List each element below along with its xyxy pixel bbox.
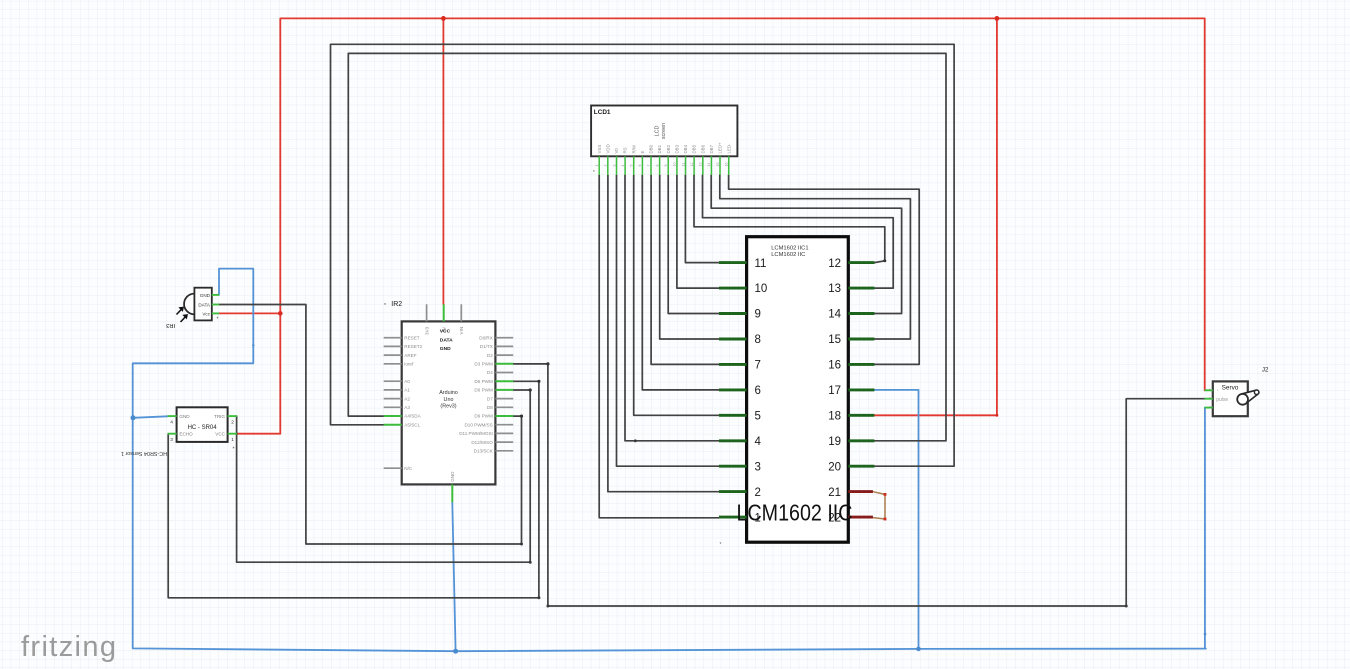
svg-text:7: 7 (647, 165, 651, 167)
svg-text:VDD: VDD (605, 144, 610, 153)
svg-text:ECHO: ECHO (179, 432, 193, 437)
svg-text:9: 9 (755, 309, 761, 321)
IR3 pin GND (212, 294, 219, 296)
svg-text:2: 2 (231, 419, 234, 425)
svg-text:5: 5 (755, 411, 761, 423)
wire gray HC-SR04 ECHO to Arduino D5 PWM (168, 381, 539, 598)
svg-text:LCM1602 IIC1: LCM1602 IIC1 (771, 245, 808, 251)
svg-text:RESET: RESET (404, 335, 420, 340)
Arduino pin D5 PWM (495, 380, 513, 382)
LCD1 pin 5 R/W (633, 156, 635, 175)
LCM1602 pin 5 (719, 414, 747, 417)
svg-text:ioref: ioref (404, 362, 414, 367)
wire orange jumper LCM pin21 to pin22 (873, 492, 885, 519)
Arduino pin VIN (460, 304, 462, 321)
svg-text:D10 PWM/SS: D10 PWM/SS (464, 422, 492, 427)
Arduino pin RESET (384, 337, 402, 339)
svg-text:D4: D4 (487, 370, 493, 375)
svg-text:D9 PWM: D9 PWM (474, 414, 493, 419)
LCD1 pin 4 RS (624, 156, 626, 175)
node bendpoint orange top (884, 493, 887, 496)
svg-text:Vcc: Vcc (202, 311, 210, 316)
LCM1602 pin 3 (719, 465, 747, 468)
node bendpoint pin12 corner (883, 259, 886, 262)
Arduino pin A1 (384, 389, 402, 391)
LCM1602 pin 16 (848, 363, 874, 366)
node blue bendpoint on IR GND run (252, 344, 254, 346)
Arduino pin D3 PWM (495, 363, 513, 365)
wire gray LCD DB5 to LCM pin12 (694, 175, 885, 263)
Arduino pin D11 PWM/MOSI (495, 432, 513, 434)
svg-text:N/C: N/C (404, 466, 413, 471)
LCM1602 pin 8 (719, 338, 747, 341)
servo pin pulse (1205, 398, 1213, 400)
svg-text:*: * (233, 446, 235, 452)
LCM1602 pin 21 (848, 490, 873, 493)
LCM1602 pin 11 (719, 261, 747, 264)
Arduino pin D1/TX (495, 345, 513, 347)
LCM1602 pin 20 (848, 465, 874, 468)
wire gray LCD VSS to LCM pin1 (599, 175, 719, 518)
svg-text:IR3: IR3 (166, 322, 175, 328)
svg-text:8: 8 (755, 334, 761, 346)
LCM1602 pin 4 (719, 439, 747, 442)
Arduino pin D9 PWM (495, 415, 513, 417)
svg-text:VSS: VSS (597, 145, 602, 154)
wire gray LCD DB4 to LCM pin11 (685, 175, 719, 263)
svg-text:pulse: pulse (1216, 397, 1228, 403)
svg-text:5: 5 (630, 165, 634, 167)
svg-text:LCM1602 IIC: LCM1602 IIC (771, 252, 805, 258)
svg-text:LCD: LCD (655, 126, 661, 137)
svg-text:D3 PWM: D3 PWM (474, 362, 493, 367)
svg-text:8: 8 (655, 165, 659, 167)
svg-text:HC-SR04 Sensor 1: HC-SR04 Sensor 1 (121, 450, 167, 456)
Arduino pin A3 (384, 406, 402, 408)
svg-text:2: 2 (604, 165, 608, 167)
svg-text:DB0: DB0 (649, 144, 654, 153)
wire gray Arduino A5/SCL to LCM pin 20 (331, 44, 955, 466)
wire gray LCD V0 to LCM pin3 (617, 175, 720, 466)
svg-text:4: 4 (621, 165, 625, 167)
svg-text:9: 9 (664, 165, 668, 167)
svg-text:6: 6 (638, 165, 642, 167)
svg-text:D8: D8 (487, 405, 493, 410)
svg-text:A0: A0 (404, 379, 410, 384)
Arduino pin 3V3 (426, 304, 428, 321)
LCD1 pin 12 DB5 (693, 156, 695, 175)
Arduino pin A5/SCL (384, 424, 402, 426)
svg-text:DB2: DB2 (666, 144, 671, 153)
node bendpoint D9 corner (520, 415, 523, 418)
svg-text:VCC: VCC (440, 329, 451, 335)
svg-text:GND: GND (200, 293, 211, 298)
wire gray HC-SR04 TRIG to Arduino D6 PWM (237, 390, 531, 562)
servo pin V+ (1205, 389, 1213, 391)
Arduino pin D8 (495, 406, 513, 408)
wire gray LCD DB1 to LCM pin8 (660, 175, 719, 339)
svg-text:AREF: AREF (404, 353, 416, 358)
Arduino pin RESET2 (384, 345, 402, 347)
svg-text:RS: RS (623, 147, 628, 153)
node blue junction at Arduino GND bottom (453, 649, 458, 654)
svg-text:A3: A3 (404, 405, 410, 410)
LCD1 pin 10 DB3 (676, 156, 678, 175)
svg-text:DATA: DATA (440, 337, 453, 343)
svg-text:15: 15 (828, 334, 841, 346)
svg-text:D2: D2 (487, 353, 493, 358)
wire gray LCD DB2 to LCM pin9 (668, 175, 719, 314)
node blue junction at HC-SR04 GND (131, 415, 136, 420)
node blue junction at pin17 bottom (916, 647, 921, 652)
svg-text:16: 16 (828, 360, 841, 372)
svg-text:DB5: DB5 (692, 144, 697, 153)
svg-text:D7: D7 (487, 396, 493, 401)
svg-text:14: 14 (828, 309, 841, 321)
wire blue Arduino GND down to bottom bus (452, 502, 455, 651)
svg-text:D11 PWM/MOSI: D11 PWM/MOSI (459, 431, 493, 436)
svg-text:DB6: DB6 (700, 144, 705, 153)
wire gray LCD LED- to LCM pin16 (729, 175, 920, 364)
svg-text:*: * (720, 542, 722, 548)
LCM1602 pin 22 (848, 516, 873, 519)
svg-text:VIN: VIN (459, 327, 464, 335)
LCM1602 pin 15 (848, 338, 874, 341)
svg-text:TRIG: TRIG (214, 414, 225, 419)
LCM1602 pin 12 (848, 261, 874, 264)
wire gray LCD RS to LCM pin4 (625, 175, 719, 441)
svg-text:LCD1: LCD1 (594, 109, 611, 116)
wire red +5V bus: HC-SR04 VCC up left side, along top, to servo (237, 18, 1205, 433)
svg-text:*: * (593, 170, 595, 176)
svg-text:DB1: DB1 (657, 144, 662, 153)
LCM1602 pin 6 (719, 388, 747, 391)
Arduino pin A2 (384, 398, 402, 400)
IR3 arrow 2 (181, 314, 188, 322)
svg-text:A2: A2 (404, 396, 410, 401)
wire gray Arduino A4/SDA to LCM pin 19 (348, 53, 946, 440)
svg-text:HC - SR04: HC - SR04 (188, 425, 218, 431)
svg-text:GND: GND (450, 471, 455, 482)
wire blue servo bottom pin down to bottom bus (1204, 408, 1206, 649)
svg-text:13: 13 (828, 283, 841, 295)
Arduino pin N/C (384, 467, 402, 469)
svg-text:3: 3 (755, 461, 761, 473)
svg-text:*: * (217, 317, 219, 323)
svg-text:4: 4 (170, 419, 173, 425)
LCM1602 pin 13 (848, 287, 874, 290)
LCM1602 pin 17 (848, 388, 874, 391)
svg-text:LED-: LED- (726, 143, 731, 154)
node red bendpoint at LCM pin18 corner (996, 414, 999, 417)
LCD1 pin 15 LED+ (719, 156, 721, 175)
svg-text:3: 3 (612, 165, 616, 167)
node red junction top bus at x=997 (995, 16, 1000, 21)
LCD1 pin 11 DB4 (685, 156, 687, 175)
svg-text:*: * (384, 303, 386, 309)
Arduino pin 5V (443, 304, 445, 321)
servo J2 (1205, 367, 1269, 417)
LCM1602 pin 2 (719, 490, 747, 493)
svg-text:13: 13 (699, 163, 703, 167)
Arduino pin D7 (495, 398, 513, 400)
svg-text:D6 PWM: D6 PWM (474, 388, 493, 393)
LCD1 LCD screen part (591, 106, 737, 177)
node blue bendpoint near servo bottom (1204, 633, 1207, 636)
wire gray IR3 DATA to Arduino D9 PWM (219, 305, 522, 545)
svg-text:12: 12 (828, 258, 841, 270)
svg-text:D0/RX: D0/RX (479, 335, 493, 340)
svg-text:15: 15 (716, 163, 720, 167)
svg-text:(Rev3): (Rev3) (440, 404, 456, 410)
Arduino pin A0 (384, 380, 402, 382)
svg-text:GND: GND (179, 414, 190, 419)
svg-text:LCM1602 IIC: LCM1602 IIC (737, 500, 853, 526)
svg-text:19: 19 (828, 436, 841, 448)
LCD1 pin 7 DB0 (650, 156, 652, 175)
svg-text:DB4: DB4 (683, 144, 688, 153)
LCD1 pin 16 LED- (728, 156, 730, 175)
wire gray LCD VDD to LCM pin2 (608, 175, 719, 492)
node red junction at IR3 Vcc (278, 311, 283, 316)
svg-text:Servo: Servo (1222, 385, 1239, 392)
svg-text:A4/SDA: A4/SDA (404, 414, 421, 419)
LCD1 pin 6 E (641, 156, 643, 175)
svg-text:18: 18 (828, 411, 841, 423)
svg-text:10: 10 (673, 163, 677, 167)
svg-text:screen: screen (661, 123, 667, 139)
svg-text:10: 10 (755, 283, 768, 295)
wire gray LCD DB7 to LCM pin14 (711, 175, 901, 314)
wire blue LCM pin17 right and down to bottom bus (874, 390, 918, 649)
svg-text:IR2: IR2 (391, 301, 402, 308)
svg-text:DB3: DB3 (675, 144, 680, 153)
wire gray LCD E to LCM pin6 (642, 175, 719, 390)
Arduino pin D4 (495, 372, 513, 374)
LCM1602 pin 10 (719, 287, 747, 290)
svg-text:E: E (640, 151, 645, 154)
Arduino pin D0/RX (495, 337, 513, 339)
svg-text:J2: J2 (1262, 367, 1269, 374)
Arduino Uno U1 (384, 304, 514, 502)
svg-text:6: 6 (755, 385, 761, 397)
node bendpoint pin4 wire (634, 439, 637, 442)
Arduino pin ioref (384, 363, 402, 365)
svg-text:D1/TX: D1/TX (480, 344, 493, 349)
wire red branch top bus down to LCM pin 18 (874, 18, 997, 415)
Arduino pin D12/MISO (495, 441, 513, 443)
LCM1602 pin 9 (719, 312, 747, 315)
HC-SR04 pin 4 GND (168, 415, 177, 417)
svg-text:4: 4 (755, 436, 762, 448)
svg-text:GND: GND (440, 346, 451, 352)
svg-text:1: 1 (231, 437, 234, 443)
svg-text:DB7: DB7 (709, 144, 714, 153)
node red junction top bus at x=443 (441, 16, 446, 21)
svg-text:D5 PWM: D5 PWM (474, 379, 493, 384)
IR3 pin DATA (212, 304, 219, 306)
wire gray Arduino D3 PWM to servo pulse (513, 364, 1204, 606)
svg-text:3: 3 (170, 437, 173, 443)
Arduino pin GND bottom (451, 484, 453, 502)
svg-text:17: 17 (828, 385, 841, 397)
wire blue HC-SR04 GND to left vertical (133, 416, 168, 418)
IR3 arrow 1 (177, 307, 184, 315)
op-amp-style module LCM1602 IIC1 (719, 237, 874, 548)
wire blue GND net: IR3 GND up over and down left side, along bottom to servo (133, 269, 1206, 652)
svg-text:VCC: VCC (215, 432, 225, 437)
LCD1 pin 1 VSS (598, 156, 600, 175)
svg-text:R/W: R/W (631, 144, 636, 153)
wire gray LCD DB0 to LCM pin7 (651, 175, 719, 364)
LCD1 pin 14 DB7 (710, 156, 712, 175)
LCM1602 pin 1 (719, 516, 747, 519)
LCD1 pin 3 V0 (616, 156, 618, 175)
svg-text:21: 21 (828, 487, 841, 499)
svg-text:16: 16 (725, 163, 729, 167)
svg-text:11: 11 (755, 258, 767, 270)
Arduino pin D10 PWM/SS (495, 424, 513, 426)
svg-text:DATA: DATA (198, 303, 211, 308)
svg-text:Arduino: Arduino (439, 390, 458, 396)
IR3 pin Vcc (212, 312, 219, 314)
node bendpoint D3 corner (546, 362, 549, 365)
svg-text:fritzing: fritzing (21, 631, 116, 663)
svg-text:Uno: Uno (444, 397, 454, 403)
node bendpoint D5 corner (537, 380, 540, 383)
wire gray LCD DB3 to LCM pin10 (677, 175, 719, 288)
IR receiver IR3 (166, 288, 219, 328)
svg-text:D13/SCK: D13/SCK (474, 449, 494, 454)
wire gray LCD DB6 to LCM pin13 (703, 175, 894, 288)
svg-text:12: 12 (690, 163, 694, 167)
HC-SR04 pin 2 TRIG (228, 415, 237, 417)
svg-text:3V3: 3V3 (424, 326, 429, 335)
svg-text:A1: A1 (404, 388, 410, 393)
ultrasonic sensor HC-SR04 (121, 407, 237, 456)
svg-text:V0: V0 (614, 148, 619, 154)
node bendpoint orange bottom (884, 518, 887, 521)
LCD1 pin 8 DB1 (659, 156, 661, 175)
wire gray LCD LED+ to LCM pin15 (720, 175, 911, 339)
Arduino pin A4/SDA (384, 415, 402, 417)
LCD1 pin 13 DB6 (702, 156, 704, 175)
wire red branch IR3 Vcc to bus junction (219, 312, 280, 314)
svg-text:D12/MISO: D12/MISO (471, 440, 493, 445)
LCM1602 pin 14 (848, 312, 874, 315)
LCM1602 pin 19 (848, 439, 874, 442)
svg-text:2: 2 (755, 487, 761, 499)
svg-text:RESET2: RESET2 (404, 344, 422, 349)
svg-text:7: 7 (755, 360, 761, 372)
LCM1602 pin 7 (719, 363, 747, 366)
Arduino pin D2 (495, 354, 513, 356)
svg-text:LED+: LED+ (718, 142, 723, 154)
svg-text:1: 1 (595, 165, 599, 167)
LCM1602 pin 18 (848, 414, 874, 417)
node bendpoint D6 corner (529, 388, 532, 391)
wire red branch top bus down to Arduino 5V (442, 18, 444, 304)
Arduino pin D6 PWM (495, 389, 513, 391)
Arduino pin AREF (384, 354, 402, 356)
LCD1 pin 2 VDD (607, 156, 609, 175)
svg-text:14: 14 (707, 163, 711, 167)
servo horn icon (1239, 390, 1259, 404)
HC-SR04 pin 1 VCC (228, 433, 237, 435)
Arduino pin D13/SCK (495, 450, 513, 452)
svg-text:A5/SCL: A5/SCL (404, 422, 420, 427)
LCD1 pin 9 DB2 (667, 156, 669, 175)
svg-text:11: 11 (681, 163, 685, 167)
servo pin GND (1205, 407, 1213, 409)
IR sensor IR2 (overlapping Arduino) (384, 301, 453, 352)
svg-text:20: 20 (828, 461, 841, 473)
wire gray LCD R/W to LCM pin5 (634, 175, 719, 415)
HC-SR04 pin 3 ECHO (168, 433, 177, 435)
